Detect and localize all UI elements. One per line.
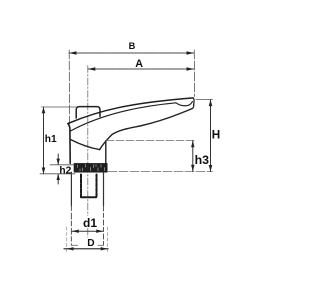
- dimension d1 arrows: [72, 230, 103, 233]
- svg-text:H: H: [212, 129, 220, 142]
- dimension D line: [64, 248, 108, 250]
- dimension h3 arrows: [191, 141, 194, 172]
- lever underside across hub: [71, 140, 100, 150]
- dimension h3 line: [192, 141, 194, 172]
- svg-text:D: D: [87, 238, 94, 249]
- svg-text:d1: d1: [83, 216, 97, 230]
- svg-text:h2: h2: [59, 165, 71, 176]
- dimension B line: [69, 52, 194, 54]
- dimension H line: [210, 100, 212, 172]
- hub right edge: [105, 141, 107, 164]
- dimension H arrows: [209, 100, 213, 172]
- threaded stud left edge: [70, 172, 72, 206]
- stud bottom edge: [71, 244, 77, 246]
- lever cap (clamping element top): [76, 107, 100, 118]
- extension line bottom plane: [108, 171, 213, 173]
- dimension h1 arrows: [42, 107, 46, 174]
- dimension d1 label background: [81, 216, 98, 228]
- lever tip right edge: [192, 98, 194, 109]
- extension lines D: [66, 227, 68, 252]
- threaded stud right edge: [103, 172, 105, 206]
- svg-text:h1: h1: [45, 134, 57, 145]
- dimension A line: [88, 68, 194, 70]
- lever inner top line: [71, 102, 193, 131]
- serrated locking washer (black band): [74, 163, 107, 172]
- lever underside swoosh: [100, 109, 192, 150]
- svg-text:h3: h3: [195, 153, 210, 167]
- lever left outline: [68, 124, 70, 164]
- svg-text:B: B: [129, 41, 136, 51]
- dimension d1 line: [72, 230, 103, 232]
- svg-text:A: A: [135, 58, 143, 70]
- extension line H top: [196, 99, 213, 101]
- dimension B arrows: [69, 51, 194, 55]
- dimension D label background: [86, 238, 97, 247]
- extension line h1/h2 bottom: [40, 173, 75, 175]
- extension line h1 top: [42, 106, 77, 108]
- dimension D arrows: [67, 247, 108, 250]
- dimension h2 arrows: [57, 154, 59, 184]
- lever top edge: [68, 98, 193, 124]
- extension line h2 top: [50, 164, 74, 166]
- dimension A arrows: [88, 67, 194, 71]
- extension line h3 top: [106, 140, 195, 142]
- hidden hex socket: [81, 175, 97, 198]
- dimension h1 line: [43, 107, 45, 174]
- extension line left of B: [68, 50, 70, 124]
- center line of hub and stud: [87, 66, 89, 247]
- extension line right (B/A to lever tip): [193, 50, 195, 97]
